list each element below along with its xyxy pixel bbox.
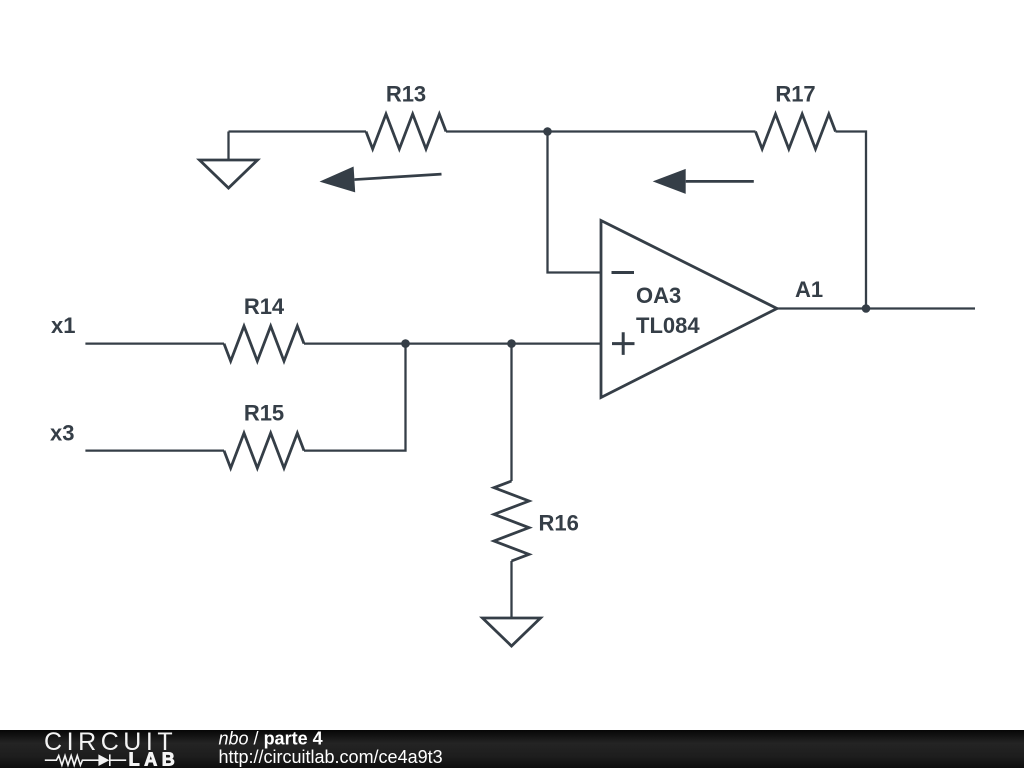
svg-text:R16: R16 (539, 511, 579, 536)
wire node A down to inverting input (548, 132, 602, 273)
ground (top left, GND1) (200, 132, 258, 189)
svg-text:http://circuitlab.com/ce4a9t3: http://circuitlab.com/ce4a9t3 (219, 747, 443, 767)
wire R14 to non-inverting input (304, 342, 601, 344)
wire node C down to R16 (510, 344, 512, 481)
wire R15 up to node B (304, 344, 406, 451)
wire x3 to R15 (85, 449, 224, 451)
current arrow (right, under R17) (653, 169, 754, 194)
node C (R16 tap) (507, 339, 516, 348)
ground (bottom, GND2) (483, 618, 541, 646)
resistor R13 (366, 114, 446, 149)
op-amp OA3 (TL084) (601, 221, 777, 398)
svg-text:R17: R17 (775, 81, 815, 106)
resistor R17 (756, 114, 836, 149)
wire node A to R17 (548, 130, 756, 132)
wire R13 to node A (446, 130, 548, 132)
node B (x3 join) (401, 339, 410, 348)
wire R17 to output (down right side) (836, 132, 867, 309)
svg-text:TL084: TL084 (636, 313, 700, 338)
resistor R15 (224, 433, 304, 468)
resistor R14 (224, 326, 304, 361)
wire op-amp output to right edge (777, 307, 975, 309)
svg-text:R15: R15 (244, 401, 284, 426)
svg-text:R13: R13 (386, 81, 426, 106)
svg-text:LAB: LAB (129, 750, 180, 768)
node A (feedback junction) (543, 127, 552, 136)
svg-text:OA3: OA3 (636, 283, 681, 308)
svg-text:x1: x1 (51, 313, 75, 338)
wire x1 to R14 (85, 342, 224, 344)
logo resistor-diode art (45, 754, 126, 766)
svg-text:R14: R14 (244, 294, 285, 319)
wire R16 to ground (510, 561, 512, 618)
wire ground to R13 (229, 130, 367, 132)
svg-text:x3: x3 (50, 421, 74, 446)
footer bar (0, 730, 1024, 768)
current arrow (left, under R13) (320, 167, 442, 193)
svg-text:nbo / parte 4: nbo / parte 4 (219, 729, 323, 749)
resistor R16 (494, 481, 529, 561)
node output junction (862, 304, 871, 313)
svg-text:A1: A1 (795, 277, 823, 302)
